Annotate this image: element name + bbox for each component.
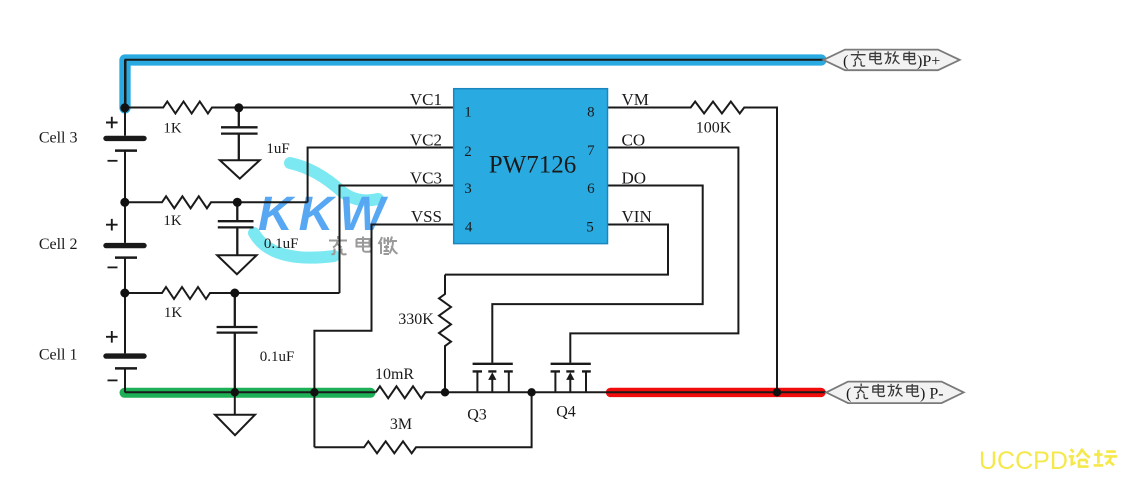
svg-text:6: 6	[587, 181, 595, 197]
node row2 cap	[233, 198, 242, 207]
watermark chinese text wei	[379, 237, 398, 255]
svg-text:VC1: VC1	[410, 90, 442, 109]
svg-text:1uF: 1uF	[266, 141, 289, 157]
label P+ flag text	[843, 51, 940, 70]
svg-text:3M: 3M	[390, 416, 412, 433]
wire VM through 100K	[608, 102, 778, 393]
watermark luntan chinese	[1069, 449, 1117, 467]
label plus cell3	[106, 117, 118, 129]
wire red P- rail highlight	[611, 388, 822, 397]
resistor R 1K row1	[125, 102, 454, 114]
ground G3	[215, 415, 255, 436]
svg-text:Cell 1: Cell 1	[39, 347, 78, 364]
wire VSS	[314, 225, 453, 448]
ground G1	[220, 160, 260, 178]
wire cell2 minus to row3	[124, 258, 126, 353]
op-amp U1 PW7126 IC body	[454, 89, 608, 244]
svg-text:UCCPD: UCCPD	[979, 447, 1068, 475]
watermark KKW logo crescent bottom arc	[254, 233, 334, 258]
wire cell column top	[124, 60, 126, 136]
transistor Q4 body arrow	[566, 372, 574, 380]
battery Cell 2	[106, 243, 144, 248]
node rail Q3-Q4	[527, 388, 535, 396]
svg-text:0.1uF: 0.1uF	[260, 349, 295, 365]
resistor R 3M	[314, 392, 531, 453]
watermark chinese text kua	[329, 236, 347, 254]
svg-text:VIN: VIN	[622, 207, 652, 226]
wire cell3 minus to row2	[124, 151, 126, 243]
svg-text:3: 3	[464, 181, 472, 197]
svg-text:(: (	[846, 386, 851, 403]
resistor R 1K row3	[125, 287, 340, 299]
svg-text:VC3: VC3	[410, 169, 442, 188]
svg-text:) P-: ) P-	[920, 386, 944, 403]
svg-text:(: (	[843, 53, 848, 70]
svg-text:330K: 330K	[398, 311, 434, 328]
wire top P+ black	[126, 60, 827, 108]
label P- flag text	[846, 384, 944, 403]
resistor R 10mR	[376, 386, 826, 398]
watermark KKW logo crescent top arc	[290, 163, 378, 200]
svg-text:Q3: Q3	[467, 406, 487, 423]
label plus cell2	[106, 219, 118, 231]
wire VIN	[445, 225, 668, 275]
transistor Q4	[551, 363, 591, 365]
svg-text:)P+: )P+	[917, 53, 940, 70]
svg-text:VC2: VC2	[410, 130, 442, 149]
capacitor C3 0.1uF	[217, 293, 258, 392]
transistor Q3	[473, 363, 513, 365]
svg-text:1: 1	[464, 104, 472, 120]
node rail cap column	[231, 388, 239, 396]
svg-text:7: 7	[587, 143, 595, 159]
label plus cell1	[106, 331, 118, 343]
svg-text:1K: 1K	[164, 305, 183, 321]
battery Cell 3	[106, 136, 144, 141]
node P+ flag	[823, 50, 959, 71]
label minus cell1	[108, 379, 118, 381]
svg-text:0.1uF: 0.1uF	[264, 236, 299, 252]
wire rail to ground G3	[234, 392, 236, 414]
capacitor C1 1uF	[221, 108, 258, 160]
svg-text:VSS: VSS	[411, 207, 442, 226]
wire green B- rail highlight	[125, 388, 371, 398]
svg-text:4: 4	[465, 220, 473, 236]
svg-text:1K: 1K	[163, 120, 182, 136]
node row1 cap	[234, 103, 243, 112]
node row3 cell	[120, 289, 129, 298]
svg-text:100K: 100K	[696, 120, 732, 137]
svg-text:Cell 3: Cell 3	[39, 129, 78, 146]
wire VC2	[308, 148, 454, 203]
resistor R 1K row2	[125, 196, 308, 208]
battery Cell 1	[106, 353, 144, 358]
svg-text:Cell 2: Cell 2	[39, 236, 78, 253]
node rail VM	[773, 388, 781, 396]
wire blue P+ rail highlight	[125, 60, 821, 108]
svg-text:VM: VM	[622, 90, 649, 109]
node P- flag	[826, 382, 964, 404]
svg-text:10mR: 10mR	[375, 366, 414, 383]
node rail 330K	[441, 388, 449, 396]
capacitor C2 0.1uF	[218, 202, 254, 255]
wire VC3	[340, 186, 454, 294]
node rail VSS column	[310, 388, 318, 396]
svg-text:DO: DO	[622, 169, 647, 188]
svg-text:8: 8	[587, 104, 595, 120]
label minus cell3	[108, 160, 118, 162]
node row1 cell	[120, 103, 129, 112]
wire DO to Q3 gate	[492, 186, 702, 363]
watermark chinese text ke	[357, 237, 371, 252]
svg-text:1K: 1K	[163, 213, 182, 229]
node row2 cell	[120, 198, 129, 207]
svg-text:CO: CO	[622, 130, 646, 149]
transistor Q3 body arrow	[488, 372, 496, 380]
wire CO to Q4 gate	[570, 148, 738, 363]
wire bottom rail B- to P-	[125, 391, 376, 393]
wire cell1 minus to rail	[124, 369, 126, 393]
resistor R 330K vertical	[439, 275, 451, 393]
node row3 cap	[230, 289, 239, 298]
svg-text:PW7126: PW7126	[489, 152, 577, 179]
svg-text:2: 2	[464, 144, 472, 160]
ground G2	[217, 255, 256, 274]
svg-text:5: 5	[586, 220, 594, 236]
label minus cell2	[108, 266, 118, 268]
svg-text:Q4: Q4	[556, 403, 576, 420]
